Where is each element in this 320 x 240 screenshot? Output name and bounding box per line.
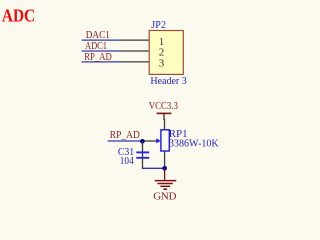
ground stem — [164, 168, 166, 180]
svg-text:3386W-10K: 3386W-10K — [169, 137, 219, 149]
svg-text:DAC1: DAC1 — [86, 30, 110, 41]
wiper arrowhead — [156, 138, 161, 143]
junction node (RP1 / GND) — [162, 166, 167, 171]
svg-text:104: 104 — [120, 156, 135, 167]
pin 3 of RP1 (bottom) — [164, 151, 166, 164]
svg-text:RP_AD: RP_AD — [110, 130, 140, 141]
wire net DAC1 (pin 1) — [82, 39, 121, 41]
ground bar 3 — [160, 185, 170, 187]
ground bar 4 — [163, 188, 167, 190]
wire net ADC1 (pin 2) — [82, 50, 121, 52]
ground bar 1 — [155, 180, 177, 182]
wiper pin of RP1 — [142, 140, 156, 142]
svg-text:3: 3 — [159, 57, 165, 69]
junction node (RP_AD / C31) — [140, 139, 145, 144]
potentiometer RP1 body — [161, 130, 169, 151]
capacitor C31 bottom plate — [136, 157, 149, 159]
wire net RP_AD (pin 3) — [82, 61, 121, 63]
svg-text:GND: GND — [153, 191, 176, 203]
ground bar 2 — [158, 183, 173, 185]
connector JP2 body — [149, 31, 183, 75]
svg-text:ADC1: ADC1 — [85, 41, 107, 52]
VCC3.3 bar — [157, 112, 172, 114]
svg-text:VCC3.3: VCC3.3 — [149, 101, 178, 112]
VCC3.3 stem — [163, 113, 165, 120]
svg-text:RP_AD: RP_AD — [84, 52, 112, 63]
svg-text:JP2: JP2 — [151, 20, 166, 31]
wire RP1 to ground junction — [164, 164, 166, 169]
pin 1 of JP2 — [120, 39, 149, 41]
pin 1 of RP1 (top) — [164, 119, 166, 130]
pin 3 of JP2 — [120, 61, 149, 63]
svg-text:ADC: ADC — [2, 5, 35, 25]
pin of C31 (vertical through plates) — [142, 141, 144, 168]
wire ground rail horizontal — [142, 167, 165, 169]
svg-text:Header 3: Header 3 — [150, 76, 186, 87]
wire RP_AD to junction — [108, 140, 143, 142]
capacitor C31 top plate — [136, 151, 149, 153]
pin 2 of JP2 — [120, 50, 149, 52]
